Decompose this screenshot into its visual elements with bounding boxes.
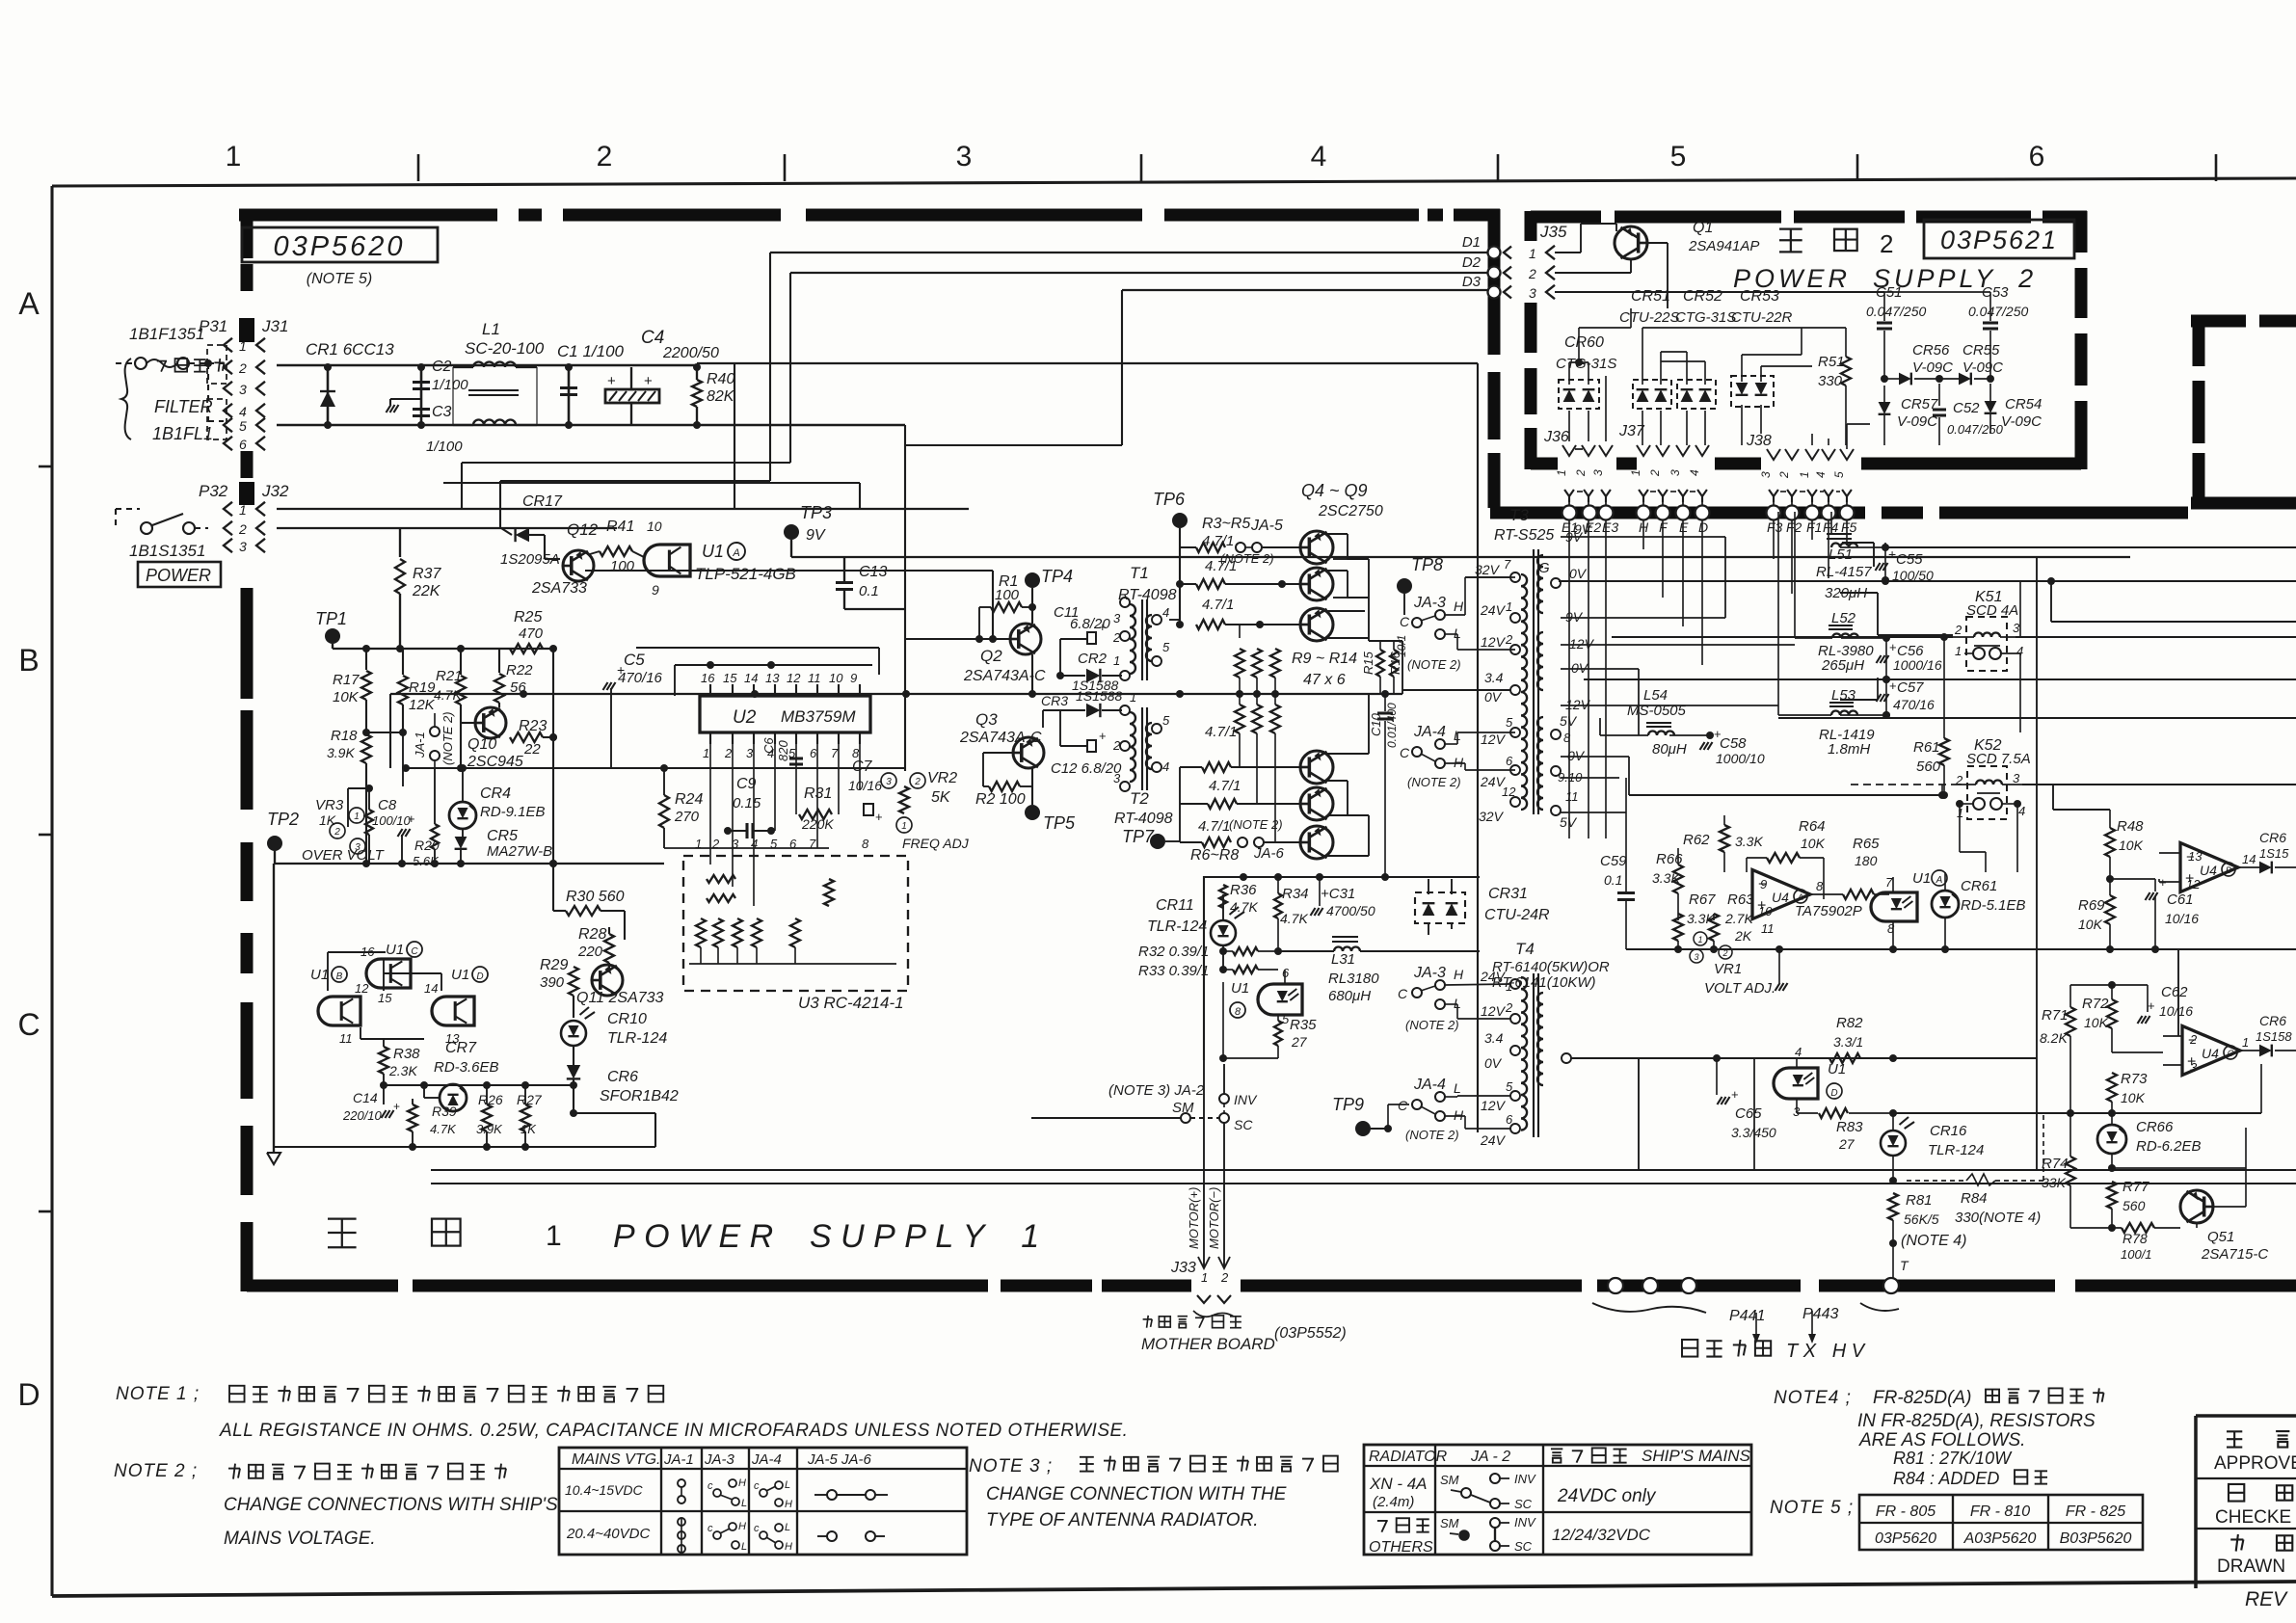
svg-text:JA-6: JA-6 — [1253, 845, 1285, 862]
svg-text:47 x 6: 47 x 6 — [1303, 672, 1346, 688]
svg-text:NOTE 5 ;: NOTE 5 ; — [1770, 1498, 1854, 1518]
svg-text:H: H — [1454, 1107, 1464, 1123]
svg-text:INV: INV — [1514, 1472, 1536, 1486]
svg-text:5K: 5K — [931, 789, 951, 806]
diode CR5 — [455, 828, 552, 864]
capacitor C5 — [603, 651, 663, 768]
svg-text:H: H — [785, 1499, 792, 1510]
svg-text:R65: R65 — [1853, 836, 1880, 852]
svg-text:R18: R18 — [331, 728, 358, 744]
capacitor C1 — [557, 342, 625, 425]
svg-text:A: A — [18, 286, 40, 321]
svg-text:V-09C: V-09C — [1897, 413, 1937, 430]
resistor R16 — [1388, 635, 1408, 694]
svg-text:TLR-124: TLR-124 — [1928, 1142, 1984, 1158]
svg-text:24V: 24V — [1480, 602, 1507, 618]
svg-text:JA-5: JA-5 — [1250, 518, 1283, 534]
svg-text:14: 14 — [2242, 852, 2256, 866]
svg-text:12: 12 — [1502, 785, 1516, 799]
wire T3 secondary feeds — [1561, 537, 1795, 812]
wire double rail 1228 — [431, 1183, 2296, 1184]
svg-text:2SC2750: 2SC2750 — [1318, 503, 1383, 519]
svg-text:3: 3 — [1694, 952, 1698, 962]
svg-text:D1: D1 — [1462, 234, 1481, 251]
svg-text:2: 2 — [597, 141, 613, 173]
svg-text:D: D — [1830, 1088, 1837, 1099]
resistor R63 — [1709, 891, 1754, 949]
capacitor C7 — [848, 758, 883, 824]
inductor L31 — [1278, 937, 1480, 1004]
svg-text:C65: C65 — [1735, 1105, 1762, 1122]
svg-text:C: C — [1398, 1098, 1408, 1113]
opamp U4B — [2159, 843, 2256, 892]
label Q4-Q9 — [1301, 481, 1383, 519]
svg-text:FR - 825: FR - 825 — [2066, 1503, 2125, 1520]
svg-text:3: 3 — [1113, 611, 1121, 625]
svg-text:R71: R71 — [2042, 1007, 2069, 1024]
svg-text:03P5620: 03P5620 — [273, 231, 405, 262]
svg-text:J36: J36 — [1543, 429, 1569, 445]
zener CR61 — [1932, 872, 2026, 949]
svg-text:1K: 1K — [319, 812, 336, 828]
wire L53 chain — [1840, 678, 1878, 700]
capacitor C8 — [372, 797, 415, 864]
svg-text:FR-825D(A): FR-825D(A) — [1873, 1388, 1971, 1408]
svg-text:03P5621: 03P5621 — [1940, 226, 2058, 254]
inductor L52 — [1795, 512, 1886, 674]
diode CR6x top — [2238, 830, 2296, 873]
svg-text:SC: SC — [1514, 1539, 1533, 1554]
resistor R27 — [517, 1085, 543, 1147]
resistor R25 — [510, 609, 544, 653]
inductor L51 — [1816, 512, 1885, 601]
svg-text:10: 10 — [1758, 904, 1773, 918]
capacitor C52 — [1933, 384, 2004, 445]
transistor Q8 — [1300, 787, 1333, 820]
svg-text:CR5: CR5 — [487, 828, 518, 844]
svg-text:2: 2 — [1528, 266, 1536, 281]
resistor R77 — [2107, 1179, 2149, 1232]
svg-text:10K: 10K — [2119, 838, 2144, 853]
capacitor C61 — [2110, 875, 2199, 949]
svg-text:CR53: CR53 — [1740, 288, 1779, 305]
svg-text:TLR-124: TLR-124 — [1147, 918, 1207, 935]
svg-text:C8: C8 — [378, 797, 397, 813]
svg-text:B: B — [18, 643, 39, 678]
resistors inside U3 — [689, 875, 896, 964]
svg-text:+: + — [2148, 998, 2155, 1013]
svg-text:R78: R78 — [2122, 1231, 2148, 1246]
svg-text:9V: 9V — [806, 527, 826, 544]
resistor R18 — [327, 728, 371, 864]
zone row labels — [17, 286, 52, 1412]
T3 secondary taps — [1538, 529, 1595, 830]
board title POWER SUPPLY 2 — [1733, 220, 2074, 293]
ground arrow bottom left — [267, 1143, 280, 1164]
svg-text:10/16: 10/16 — [2159, 1003, 2193, 1019]
svg-text:8: 8 — [1816, 879, 1824, 893]
svg-text:2.7K: 2.7K — [1724, 911, 1753, 926]
svg-text:82K: 82K — [707, 388, 735, 405]
transistor Q1 — [1615, 220, 1759, 259]
svg-text:2: 2 — [1574, 469, 1588, 477]
svg-text:CR60: CR60 — [1564, 334, 1604, 351]
svg-text:R27: R27 — [517, 1092, 543, 1107]
zone column labels — [226, 141, 2216, 181]
capacitor C62 — [2070, 984, 2193, 1024]
wire right bus 603 — [1559, 577, 2296, 585]
svg-text:C: C — [1398, 986, 1408, 1001]
svg-text:U4: U4 — [1772, 890, 1789, 905]
wire TP1 rail — [333, 645, 557, 652]
wire input bottom rail — [277, 424, 905, 427]
svg-text:(NOTE 2): (NOTE 2) — [1405, 1018, 1459, 1032]
svg-text:B03P5620: B03P5620 — [2060, 1530, 2132, 1547]
svg-text:TYPE OF ANTENNA RADIATOR.: TYPE OF ANTENNA RADIATOR. — [986, 1510, 1259, 1530]
svg-text:R61: R61 — [1913, 739, 1940, 756]
svg-text:+: + — [1731, 1087, 1739, 1102]
wire right bus 985 — [1626, 945, 2296, 953]
resistor R61 — [1913, 633, 1949, 799]
resistor R24 — [659, 764, 703, 848]
diode CR6x mid — [2240, 1013, 2296, 1056]
svg-text:1: 1 — [1529, 246, 1536, 261]
wires feedback stack upper left — [443, 253, 1122, 771]
ic U2 MB3759M — [700, 671, 870, 760]
capacitor C55 — [1876, 543, 1935, 584]
svg-text:P443: P443 — [1802, 1306, 1838, 1322]
svg-text:T: T — [1900, 1258, 1909, 1273]
svg-text:TLR-124: TLR-124 — [607, 1030, 667, 1047]
svg-text:H: H — [1454, 967, 1464, 982]
svg-text:RT-6140(5KW)OR: RT-6140(5KW)OR — [1492, 959, 1610, 975]
svg-text:560: 560 — [2122, 1198, 2146, 1213]
board 03P5621 outline bottom edge — [1531, 458, 2081, 470]
svg-text:3: 3 — [1759, 471, 1773, 478]
svg-text:(NOTE 4): (NOTE 4) — [1901, 1233, 1966, 1249]
svg-text:Q10: Q10 — [467, 736, 496, 753]
svg-text:SCD 7.5A: SCD 7.5A — [1966, 751, 2031, 767]
svg-text:H: H — [738, 1477, 746, 1489]
note 4 text — [1774, 1388, 2104, 1488]
diode pack CR53 — [1731, 288, 1812, 445]
radiator jumper table — [1364, 1445, 1751, 1556]
wire right bus 557 — [1561, 536, 1725, 538]
svg-text:R35: R35 — [1290, 1017, 1317, 1033]
svg-text:10K: 10K — [2078, 917, 2103, 932]
svg-text:RD-5.1EB: RD-5.1EB — [1961, 897, 2026, 914]
diode pack CR60 — [1556, 308, 1631, 441]
svg-text:R84 : ADDED: R84 : ADDED — [1893, 1469, 1999, 1488]
svg-text:L1: L1 — [482, 320, 500, 338]
svg-text:Q2: Q2 — [980, 647, 1002, 665]
wire J32 pin1 rail — [277, 508, 969, 510]
resistor R34 — [1274, 877, 1309, 955]
svg-text:4: 4 — [1795, 1045, 1802, 1059]
svg-text:330(NOTE 4): 330(NOTE 4) — [1955, 1210, 2041, 1226]
wires upper bank collectors — [1327, 534, 1369, 641]
block outline around CR11 — [1204, 873, 1480, 1060]
svg-text:CHECKE: CHECKE — [2215, 1507, 2291, 1528]
T4 primary taps — [1480, 969, 1520, 1148]
svg-text:L54: L54 — [1643, 687, 1668, 704]
svg-text:D: D — [1698, 519, 1708, 535]
svg-text:5: 5 — [239, 418, 247, 434]
svg-text:F5: F5 — [1841, 519, 1857, 535]
svg-text:CTG-31S: CTG-31S — [1556, 356, 1616, 372]
transistor Q5 — [1300, 568, 1333, 600]
inductor L54 — [1600, 687, 1710, 758]
resistor R14 — [1270, 694, 1280, 842]
svg-text:RD-9.1EB: RD-9.1EB — [480, 804, 546, 820]
board 03P5621 outline left edge — [1525, 211, 1537, 469]
svg-text:c: c — [754, 1523, 760, 1534]
svg-text:0.15: 0.15 — [733, 795, 761, 811]
svg-text:680μH: 680μH — [1328, 988, 1371, 1004]
svg-text:R81 : 27K/10W: R81 : 27K/10W — [1893, 1449, 2013, 1468]
svg-text:R22: R22 — [506, 662, 533, 678]
svg-text:JA-4: JA-4 — [751, 1451, 782, 1468]
svg-text:9V: 9V — [1565, 609, 1584, 625]
svg-text:27: 27 — [1838, 1136, 1855, 1152]
capacitor C58 — [1700, 727, 1765, 766]
resistor R28 — [577, 926, 614, 971]
svg-text:0.01/400: 0.01/400 — [1385, 703, 1399, 748]
resistor R65 — [1812, 836, 1889, 899]
svg-text:5: 5 — [1162, 640, 1170, 654]
svg-text:2: 2 — [1777, 471, 1791, 479]
svg-text:P O W E R S U P P L Y 1: P O W E R S U P P L Y 1 — [613, 1218, 1039, 1255]
svg-text:1: 1 — [239, 502, 247, 518]
connector J37 arrows — [1618, 423, 1709, 477]
wire K51 pin3 right — [2019, 581, 2021, 637]
svg-text:5: 5 — [1832, 471, 1846, 478]
svg-text:CR10: CR10 — [607, 1011, 647, 1027]
svg-text:24V: 24V — [1480, 1132, 1507, 1148]
svg-text:U1: U1 — [386, 942, 404, 958]
svg-text:L: L — [1454, 1080, 1461, 1096]
svg-text:R28: R28 — [578, 926, 606, 943]
svg-text:5: 5 — [1670, 141, 1687, 173]
svg-text:(NOTE 2): (NOTE 2) — [441, 711, 455, 765]
zener CR7 — [424, 1040, 499, 1111]
wire L51 output to right edge — [1885, 546, 2296, 548]
svg-text:SC: SC — [1514, 1497, 1533, 1511]
svg-text:2: 2 — [724, 746, 733, 760]
svg-text:CR61: CR61 — [1961, 878, 1997, 894]
svg-text:4: 4 — [1688, 469, 1701, 476]
resistor R39 — [408, 1099, 457, 1147]
svg-text:F1: F1 — [1806, 519, 1822, 535]
svg-text:A: A — [1936, 875, 1943, 886]
wires CR5x tops — [1642, 328, 1802, 361]
capacitor C4 electrolytic — [605, 328, 719, 425]
svg-text:MOTOR(−): MOTOR(−) — [1207, 1187, 1221, 1249]
wire bus above U2 — [636, 648, 879, 696]
svg-text:4: 4 — [1162, 759, 1169, 774]
resistor R51 — [1802, 328, 1851, 445]
svg-text:CR66: CR66 — [2136, 1119, 2174, 1135]
resistor R82 — [1754, 1015, 1897, 1063]
svg-text:V-09C: V-09C — [1912, 359, 1953, 376]
test point TP9 — [1332, 1095, 1409, 1136]
svg-text:4: 4 — [239, 404, 247, 419]
wire D3 line — [1122, 289, 1488, 291]
svg-text:VR3: VR3 — [315, 797, 344, 813]
resistor R69 — [2078, 875, 2115, 949]
svg-text:CTU-22R: CTU-22R — [1731, 309, 1793, 326]
svg-text:V-09C: V-09C — [2001, 413, 2042, 430]
svg-text:c: c — [754, 1480, 760, 1492]
svg-text:CTU-22S: CTU-22S — [1619, 309, 1680, 326]
svg-text:Q11 2SA733: Q11 2SA733 — [576, 990, 664, 1006]
svg-text:5: 5 — [1162, 713, 1170, 728]
diode CR55 — [1939, 342, 2003, 385]
svg-text:R73: R73 — [2121, 1071, 2148, 1087]
switch 1B1F1351 — [116, 325, 224, 421]
svg-text:TP9: TP9 — [1332, 1095, 1364, 1114]
svg-text:10/16: 10/16 — [2165, 911, 2199, 926]
svg-text:Q51: Q51 — [2207, 1229, 2234, 1245]
svg-text:ARE AS FOLLOWS.: ARE AS FOLLOWS. — [1858, 1430, 2025, 1450]
svg-text:22: 22 — [523, 741, 541, 758]
svg-text:C12 6.8/20: C12 6.8/20 — [1051, 760, 1122, 777]
svg-text:11: 11 — [1761, 921, 1775, 936]
svg-text:TP1: TP1 — [315, 609, 347, 628]
svg-text:8: 8 — [1235, 1006, 1241, 1018]
resistor R40 — [692, 367, 735, 425]
svg-text:10/16: 10/16 — [848, 778, 882, 793]
resistor R41 — [590, 519, 644, 574]
svg-text:+: + — [607, 373, 616, 389]
svg-text:C1 1/100: C1 1/100 — [557, 342, 625, 360]
transistor Q4 — [1300, 531, 1333, 564]
svg-text:E: E — [1679, 519, 1689, 535]
opamp U4A — [1752, 870, 1862, 937]
svg-text:390: 390 — [540, 974, 565, 991]
wire right vertical 2260 lower — [2177, 949, 2179, 1036]
svg-text:FILTER: FILTER — [154, 397, 213, 416]
svg-text:1: 1 — [1201, 1270, 1208, 1285]
wire T4 secondary to right — [1571, 1058, 2037, 1170]
resistor R66 — [1652, 848, 1683, 920]
wire Q51 collector — [2112, 1128, 2246, 1207]
svg-text:C13: C13 — [859, 564, 887, 580]
zener CR66 — [2097, 1109, 2202, 1172]
svg-text:TP8: TP8 — [1411, 555, 1443, 574]
svg-text:1: 1 — [1629, 469, 1642, 476]
board 03P5620 outline bottom edge — [247, 1280, 2296, 1292]
svg-text:Q3: Q3 — [975, 710, 998, 729]
connector J32 block — [239, 482, 254, 505]
svg-text:RL3180: RL3180 — [1328, 971, 1379, 987]
svg-text:CR55: CR55 — [1962, 342, 2000, 359]
svg-text:11: 11 — [339, 1031, 353, 1046]
svg-text:RADIATOR: RADIATOR — [1369, 1449, 1448, 1465]
svg-text:R2 100: R2 100 — [975, 791, 1026, 808]
transformer T2 — [1112, 690, 1173, 827]
jumper JA-3 upper — [1400, 577, 1515, 672]
transistor Q10 — [461, 707, 523, 770]
svg-text:10/1: 10/1 — [1395, 635, 1408, 657]
svg-text:1: 1 — [703, 746, 709, 760]
connector P31 J31 pins — [199, 317, 288, 452]
svg-text:4.7/1: 4.7/1 — [1209, 778, 1241, 794]
svg-text:U2: U2 — [733, 707, 757, 728]
wire double rail 1214 — [431, 1169, 2296, 1171]
capacitor C59 — [1600, 778, 1635, 949]
svg-text:CR6: CR6 — [607, 1069, 638, 1085]
wire vertical long from top area — [844, 608, 905, 610]
svg-text:1/100: 1/100 — [432, 377, 468, 393]
diode pack CR52 — [1675, 288, 1736, 445]
svg-text:1: 1 — [1955, 644, 1962, 658]
optocoupler U1-D right — [1774, 1045, 1846, 1119]
svg-text:U4: U4 — [2200, 863, 2217, 878]
svg-text:A: A — [1797, 892, 1803, 902]
svg-text:SC-20-100: SC-20-100 — [465, 339, 545, 358]
diode CR57 — [1879, 386, 1938, 445]
svg-text:CR7: CR7 — [445, 1040, 477, 1056]
svg-text:6: 6 — [1282, 966, 1290, 980]
svg-text:RL-4157: RL-4157 — [1816, 564, 1872, 580]
svg-text:SHIP'S MAINS: SHIP'S MAINS — [1642, 1447, 1750, 1465]
svg-text:R29: R29 — [540, 957, 568, 973]
svg-text:20.4~40VDC: 20.4~40VDC — [566, 1526, 650, 1542]
svg-text:(NOTE 5): (NOTE 5) — [307, 271, 372, 287]
optocoupler U1-B — [310, 967, 369, 1046]
svg-text:10: 10 — [829, 671, 843, 685]
variable resistor VR2 — [881, 770, 970, 851]
svg-text:1: 1 — [1113, 653, 1120, 668]
svg-text:TLP-521-4GB: TLP-521-4GB — [695, 565, 796, 583]
resistor R62 — [1683, 815, 1763, 872]
svg-text:F: F — [1659, 519, 1669, 535]
svg-text:9: 9 — [850, 671, 857, 685]
resistor R1 — [979, 573, 1032, 639]
svg-text:10K: 10K — [2084, 1015, 2109, 1030]
svg-text:T4: T4 — [1515, 940, 1535, 958]
jumper JA-3 lower — [1398, 965, 1510, 1032]
svg-text:3.9K: 3.9K — [327, 745, 355, 760]
svg-text:U1: U1 — [702, 542, 724, 561]
connector P32 J32 pins — [199, 482, 289, 554]
svg-text:Q1: Q1 — [1693, 220, 1713, 236]
svg-text:1: 1 — [1555, 469, 1568, 476]
svg-text:R69: R69 — [2078, 897, 2105, 914]
svg-text:C10: C10 — [1369, 712, 1383, 736]
transistor Q11 — [576, 965, 664, 1006]
test point TP7 — [1122, 767, 1180, 849]
connector J35 pins — [1504, 223, 1567, 301]
label mother board — [1141, 1316, 1347, 1353]
inductor L53 — [1778, 512, 1886, 758]
svg-text:CR3: CR3 — [1041, 693, 1068, 708]
svg-text:+: + — [1888, 546, 1896, 562]
board 03P5620 outline left edge — [241, 209, 254, 1291]
svg-text:MAINS VOLTAGE.: MAINS VOLTAGE. — [224, 1529, 376, 1549]
svg-text:R25: R25 — [514, 609, 542, 625]
jumper JA-6 — [1190, 838, 1301, 864]
resistor R74 — [2042, 1113, 2075, 1228]
svg-text:5: 5 — [1282, 1012, 1290, 1026]
svg-text:5: 5 — [1506, 1079, 1513, 1094]
diode CR17 — [500, 493, 563, 568]
capacitor C31 — [1311, 877, 1375, 918]
svg-text:1S158: 1S158 — [2256, 1029, 2292, 1044]
svg-text:c: c — [707, 1523, 713, 1534]
vertical feed wires into T3 area — [1569, 520, 1847, 838]
